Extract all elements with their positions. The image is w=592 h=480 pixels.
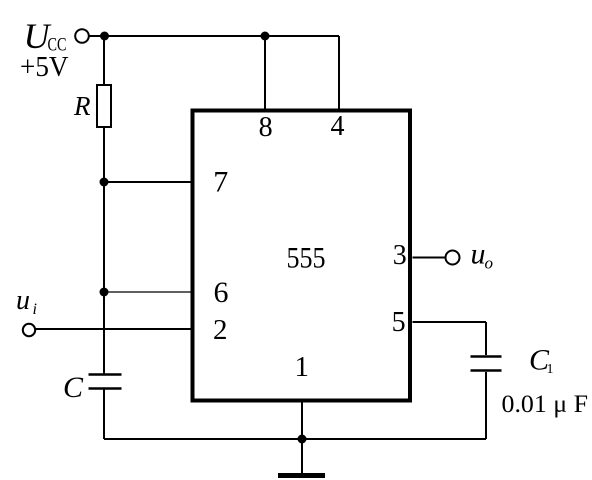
svg-text:3: 3 <box>393 240 407 271</box>
svg-text:4: 4 <box>331 111 345 142</box>
svg-text:6: 6 <box>214 276 229 309</box>
svg-text:+5V: +5V <box>20 52 69 83</box>
svg-text:7: 7 <box>213 166 228 199</box>
svg-text:R: R <box>73 91 91 121</box>
svg-text:8: 8 <box>259 112 273 143</box>
svg-text:1: 1 <box>547 362 554 377</box>
svg-text:0.01 μ F: 0.01 μ F <box>502 389 589 418</box>
svg-text:C: C <box>63 371 84 404</box>
svg-text:u: u <box>16 285 30 316</box>
svg-text:555: 555 <box>287 243 326 275</box>
svg-text:1: 1 <box>294 351 309 383</box>
svg-text:5: 5 <box>392 307 406 338</box>
svg-text:i: i <box>33 301 37 318</box>
svg-text:o: o <box>485 254 494 273</box>
svg-text:2: 2 <box>213 314 228 346</box>
svg-text:u: u <box>471 238 486 271</box>
